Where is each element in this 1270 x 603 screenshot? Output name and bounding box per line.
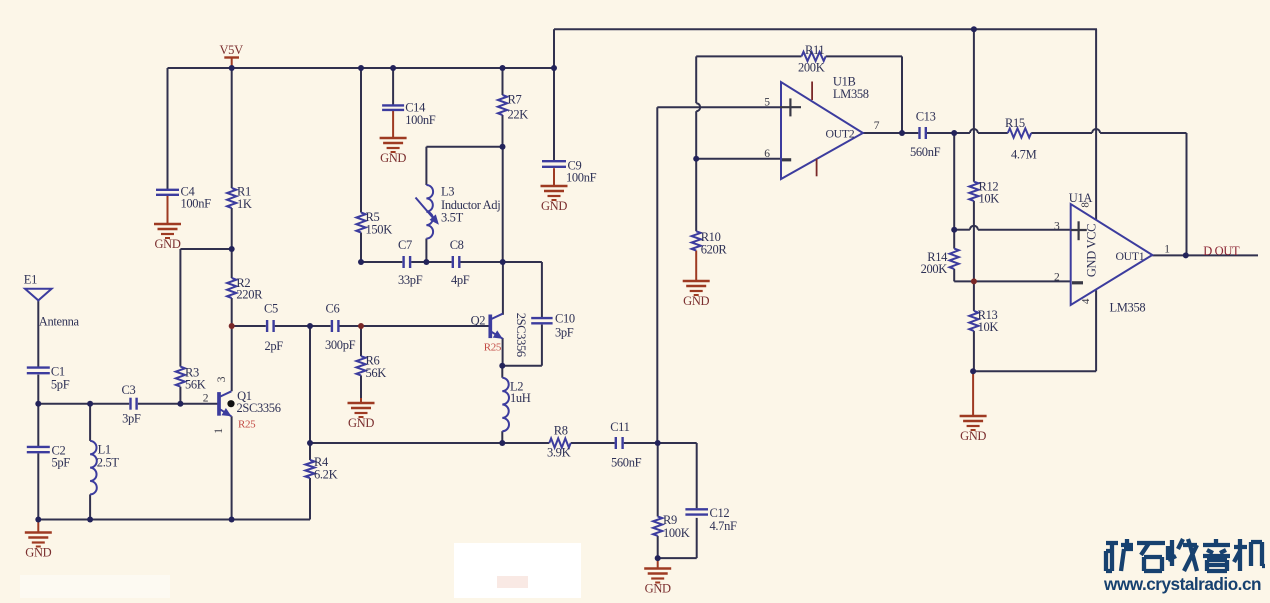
svg-text:100K: 100K (663, 526, 690, 540)
svg-text:GND: GND (960, 429, 986, 443)
svg-text:3pF: 3pF (122, 412, 141, 426)
svg-text:C6: C6 (326, 302, 340, 316)
svg-text:GND: GND (541, 199, 567, 213)
svg-text:220R: 220R (236, 288, 263, 302)
svg-text:2SC3356: 2SC3356 (514, 313, 528, 357)
svg-text:C8: C8 (450, 238, 464, 252)
svg-text:1: 1 (213, 428, 225, 434)
svg-text:Q2: Q2 (471, 314, 486, 328)
svg-text:100nF: 100nF (566, 171, 597, 185)
svg-text:Antenna: Antenna (39, 315, 80, 329)
svg-text:3.5T: 3.5T (441, 211, 464, 225)
svg-text:2pF: 2pF (265, 339, 284, 353)
svg-text:2.5T: 2.5T (97, 456, 120, 470)
svg-text:L1: L1 (98, 443, 111, 457)
svg-text:300pF: 300pF (325, 338, 356, 352)
svg-text:L3: L3 (441, 184, 454, 198)
svg-text:2: 2 (1054, 272, 1060, 284)
svg-text:1: 1 (1164, 243, 1170, 255)
svg-text:56K: 56K (366, 366, 387, 380)
svg-text:LM358: LM358 (1110, 300, 1146, 314)
svg-text:D OUT: D OUT (1203, 244, 1240, 258)
svg-text:4pF: 4pF (451, 273, 470, 287)
svg-text:3pF: 3pF (555, 326, 574, 340)
svg-text:C10: C10 (555, 312, 575, 326)
svg-text:4.7M: 4.7M (1011, 148, 1037, 162)
svg-text:GND VCC: GND VCC (1084, 224, 1098, 277)
svg-text:C13: C13 (916, 110, 936, 124)
svg-text:R11: R11 (805, 43, 824, 57)
svg-text:3: 3 (1054, 221, 1060, 233)
svg-text:GND: GND (348, 416, 374, 430)
svg-text:33pF: 33pF (398, 273, 423, 287)
svg-text:R25: R25 (484, 342, 502, 354)
svg-text:4: 4 (1080, 298, 1092, 304)
svg-text:OUT1: OUT1 (1116, 249, 1145, 263)
svg-text:100nF: 100nF (405, 113, 436, 127)
svg-text:56K: 56K (185, 378, 206, 392)
svg-text:LM358: LM358 (833, 87, 869, 101)
svg-text:E1: E1 (24, 273, 37, 287)
svg-text:4.7nF: 4.7nF (710, 519, 737, 533)
svg-text:10K: 10K (978, 320, 999, 334)
svg-text:200K: 200K (921, 262, 948, 276)
svg-text:620R: 620R (701, 243, 728, 257)
svg-text:R15: R15 (1005, 116, 1025, 130)
svg-text:3.9K: 3.9K (547, 445, 571, 459)
svg-text:V5V: V5V (220, 43, 244, 57)
svg-text:100nF: 100nF (181, 197, 212, 211)
svg-text:5pF: 5pF (51, 378, 70, 392)
svg-text:OUT2: OUT2 (826, 126, 855, 140)
svg-text:GND: GND (380, 151, 406, 165)
svg-text:560nF: 560nF (910, 145, 941, 159)
svg-text:8: 8 (1079, 202, 1091, 208)
svg-text:5: 5 (764, 96, 770, 108)
svg-text:R7: R7 (508, 93, 522, 107)
svg-text:C11: C11 (610, 420, 629, 434)
svg-text:150K: 150K (366, 222, 393, 236)
svg-text:C5: C5 (264, 302, 278, 316)
svg-text:5pF: 5pF (52, 456, 71, 470)
svg-text:www.crystalradio.cn: www.crystalradio.cn (1103, 574, 1261, 594)
svg-text:6.2K: 6.2K (314, 468, 338, 482)
svg-text:6: 6 (764, 148, 770, 160)
svg-text:200K: 200K (798, 61, 825, 75)
svg-text:GND: GND (25, 546, 51, 560)
svg-text:560nF: 560nF (611, 455, 642, 469)
svg-text:C3: C3 (122, 383, 136, 397)
svg-text:C1: C1 (51, 365, 65, 379)
svg-text:1uH: 1uH (510, 391, 531, 405)
svg-text:R25: R25 (238, 419, 256, 431)
svg-text:R8: R8 (554, 423, 568, 437)
svg-text:7: 7 (874, 120, 880, 132)
svg-text:22K: 22K (508, 108, 529, 122)
svg-text:10K: 10K (979, 191, 1000, 205)
svg-text:2SC3356: 2SC3356 (237, 401, 281, 415)
svg-text:1K: 1K (237, 197, 252, 211)
svg-text:GND: GND (154, 237, 180, 251)
svg-text:3: 3 (216, 376, 228, 382)
svg-text:GND: GND (645, 582, 671, 596)
svg-text:2: 2 (203, 393, 209, 405)
svg-text:C7: C7 (398, 238, 412, 252)
svg-text:GND: GND (683, 294, 709, 308)
